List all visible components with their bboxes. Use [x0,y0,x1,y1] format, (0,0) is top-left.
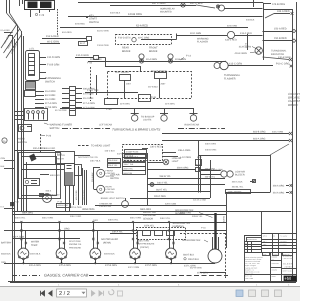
svg-text:40-S GRN: 40-S GRN [165,103,175,106]
svg-text:A 1 2: A 1 2 [245,246,248,248]
svg-text:B-17: B-17 [80,42,86,45]
svg-text:329-E DBN: 329-E DBN [165,202,176,205]
svg-text:P-23: P-23 [14,200,19,203]
svg-text:465-2 ORG: 465-2 ORG [42,217,53,220]
svg-text:(REAR): (REAR) [103,241,111,244]
svg-text:A 1 2: A 1 2 [245,243,248,245]
svg-text:336-C BLK: 336-C BLK [232,180,243,183]
svg-text:AP 10: AP 10 [263,235,267,238]
svg-text:457-R GRN: 457-R GRN [190,266,202,269]
svg-text:SCHT GRN: SCHT GRN [69,240,81,243]
svg-text:2 3 8 9 0 1: 2 3 8 9 0 1 [285,265,294,268]
svg-text:BRAKE: BRAKE [288,103,299,107]
svg-text:63-A RED: 63-A RED [136,25,148,28]
svg-text:123-B ORG: 123-B ORG [272,3,285,6]
svg-text:340 BL YEL: 340 BL YEL [232,185,244,188]
svg-text:BATTERY: BATTERY [1,242,12,245]
svg-text:AIR PRESSURE: AIR PRESSURE [101,238,119,241]
svg-text:410-R GRN: 410-R GRN [278,56,291,59]
svg-text:380A ORG: 380A ORG [140,208,151,211]
svg-text:F-14: F-14 [186,55,192,58]
svg-text:TANKER AIR: TANKER AIR [99,202,112,205]
svg-text:P10-C ORG: P10-C ORG [276,63,290,66]
svg-text:MOUNTED: MOUNTED [160,10,172,13]
svg-text:BM 4: BM 4 [263,241,266,243]
svg-text:437-C BLK: 437-C BLK [190,2,203,5]
svg-text:437-N ORG: 437-N ORG [71,206,82,209]
svg-text:LOW AIR: LOW AIR [172,157,182,160]
svg-text:40-R GRN: 40-R GRN [120,103,130,106]
svg-text:57-A RED: 57-A RED [1,29,11,32]
svg-text:309-F BLK: 309-F BLK [188,258,199,261]
svg-text:410-D GRN: 410-D GRN [97,30,109,33]
svg-text:384-E BLK: 384-E BLK [183,254,195,257]
svg-text:Unless otherwise specified: Unless otherwise specified [245,256,263,259]
svg-text:1-800-553-0000: 1-800-553-0000 [283,258,293,260]
svg-text:GRN: GRN [1,261,6,264]
svg-text:230-2 RED: 230-2 RED [150,146,162,149]
svg-text:SWITCH: SWITCH [110,177,119,180]
svg-text:336-W YEL: 336-W YEL [205,176,216,179]
svg-text:2-4 Garber: 2-4 Garber [280,244,287,246]
svg-text:330 B ORG: 330 B ORG [205,149,217,152]
svg-text:L-10 ORG: L-10 ORG [180,156,191,159]
svg-text:LOW AIR: LOW AIR [106,188,116,191]
svg-text:A 1 2: A 1 2 [245,249,248,251]
svg-text:334 A ORG: 334 A ORG [273,191,285,194]
svg-text:CM 6: CM 6 [263,244,267,246]
svg-text:40-D GRN: 40-D GRN [190,32,201,35]
svg-text:380A ORG: 380A ORG [82,208,95,211]
svg-text:413-C GRN: 413-C GRN [229,63,242,66]
svg-text:433-2 RED: 433-2 RED [225,38,237,41]
svg-text:F-8 B GRN: F-8 B GRN [47,64,60,67]
svg-text:63-A RED: 63-A RED [62,31,72,34]
svg-text:330 A ORG: 330 A ORG [205,143,216,146]
svg-text:413-2 RED: 413-2 RED [240,32,252,35]
svg-text:7-1 Garber: 7-1 Garber [280,235,288,238]
svg-text:F-25: F-25 [39,14,45,17]
svg-text:413-F GRN: 413-F GRN [235,52,247,55]
svg-text:P-16: P-16 [201,227,206,230]
svg-text:336-6 YEL: 336-6 YEL [15,217,26,220]
svg-text:413-E GRN: 413-E GRN [239,45,252,48]
svg-text:236-A ORG: 236-A ORG [178,149,190,152]
svg-text:329-B YEL: 329-B YEL [192,215,203,218]
svg-text:LOW AIR: LOW AIR [110,174,120,177]
svg-text:SENSOR: SENSOR [143,218,153,221]
svg-text:304-B BLK: 304-B BLK [104,253,115,256]
svg-text:40-A GRN: 40-A GRN [45,90,56,93]
svg-text:F-22: F-22 [57,153,62,156]
svg-text:2057: 2057 [161,83,167,86]
svg-text:BRAKE LIGHT SWITCH: BRAKE LIGHT SWITCH [101,197,125,200]
svg-text:84-3 GRN: 84-3 GRN [45,94,56,97]
svg-text:340-2 YEL: 340-2 YEL [157,181,169,184]
svg-text:WATER: WATER [31,241,39,244]
svg-text:SWITCH: SWITCH [50,127,60,130]
svg-text:TEMP: TEMP [31,244,38,247]
svg-text:SWITCH: SWITCH [18,141,28,144]
svg-text:GRN: GRN [1,157,6,160]
svg-text:P-46: P-46 [151,96,157,99]
svg-text:40-A GRN: 40-A GRN [146,58,157,61]
svg-text:603-B ORG: 603-B ORG [253,130,266,133]
svg-text:TANK, ENGINE: TANK, ENGINE [228,191,243,194]
svg-text:410-D GRN: 410-D GRN [47,56,60,59]
svg-text:336 BLK: 336 BLK [124,159,132,162]
svg-text:150-A RED: 150-A RED [274,27,287,30]
svg-text:ISSUED: ISSUED [272,268,279,271]
svg-text:ORG: ORG [64,228,70,231]
svg-text:P-38: P-38 [197,156,202,159]
svg-text:63-B RED: 63-B RED [75,23,85,26]
svg-text:S.E.K.L swit: S.E.K.L swit [193,198,206,201]
svg-text:152 A RED: 152 A RED [46,35,59,38]
svg-text:433-B ORG: 433-B ORG [58,204,69,207]
svg-text:CHECKED: CHECKED [272,262,280,265]
svg-text:336-6 YEL: 336-6 YEL [108,219,119,222]
svg-text:3818 BLK: 3818 BLK [1,253,11,256]
svg-text:TURNSIGNALS & BRAKE LIGHTS: TURNSIGNALS & BRAKE LIGHTS [112,128,161,132]
svg-text:F10-D GTN: F10-D GTN [118,37,131,40]
svg-text:SPEEDOMETER: SPEEDOMETER [173,222,191,225]
svg-text:426-2 BLK: 426-2 BLK [105,150,116,153]
svg-text:SPEEDOMETER: SPEEDOMETER [182,239,201,242]
svg-text:329-E DBN: 329-E DBN [154,195,166,198]
svg-text:BRAKE: BRAKE [149,50,158,53]
svg-text:430-F RED: 430-F RED [75,190,78,200]
svg-text:362-E YEL: 362-E YEL [156,188,168,191]
svg-text:P-35: P-35 [58,200,63,203]
svg-text:204-A GRN: 204-A GRN [12,235,24,238]
svg-text:To reorder call: To reorder call [283,256,293,258]
svg-text:437-B BLK: 437-B BLK [148,86,159,89]
svg-text:336-C TLN: 336-C TLN [124,163,134,166]
svg-text:40-E GRN: 40-E GRN [47,41,59,44]
svg-text:330-2 ORG: 330-2 ORG [138,240,149,243]
svg-text:LIGHT: LIGHT [172,160,179,163]
svg-text:433-A RED: 433-A RED [277,10,290,13]
svg-text:433 BLK: 433 BLK [246,19,255,22]
svg-text:206-0 YEL: 206-0 YEL [108,164,118,167]
svg-text:AIR PRESSURE: AIR PRESSURE [138,243,155,246]
svg-text:SWITCH: SWITCH [45,80,55,83]
svg-text:606-0 NO: 606-0 NO [50,193,60,196]
svg-text:437-A GRN: 437-A GRN [59,264,71,267]
svg-text:+M: +M [284,276,291,281]
svg-text:FLASHER: FLASHER [197,41,208,44]
svg-text:F10-D GRN: F10-D GRN [76,54,89,57]
svg-text:336-6 ORG: 336-6 ORG [177,166,189,169]
svg-text:K-2: K-2 [1,205,5,208]
svg-text:40-G GRN: 40-G GRN [90,58,102,61]
svg-text:84-B TAN: 84-B TAN [124,172,133,175]
svg-text:ENGINE OIL: ENGINE OIL [69,243,82,246]
svg-text:437 C GRN: 437 C GRN [152,2,166,5]
svg-text:600-D NO: 600-D NO [50,174,60,177]
svg-text:1-6 Garber: 1-6 Garber [280,241,287,243]
svg-text:E L E C T: E L E C T [284,262,294,265]
svg-text:40-4 GRN: 40-4 GRN [83,97,94,100]
svg-text:IDENT NO: IDENT NO [283,254,291,256]
svg-text:2 / 2: 2 / 2 [59,291,70,297]
svg-text:340-2 YEL: 340-2 YEL [160,217,171,220]
svg-text:40-4 GRN: 40-4 GRN [45,98,56,101]
svg-text:40-B GRB: 40-B GRB [227,25,238,28]
svg-text:336-A BLK: 336-A BLK [91,172,94,182]
svg-text:206-3 BLK: 206-3 BLK [108,159,118,162]
svg-text:TO HEAD LIGHT: TO HEAD LIGHT [91,145,111,148]
svg-text:FRONT: FRONT [106,169,114,172]
svg-text:600-A: 600-A [46,189,52,192]
svg-text:204-6 BLK: 204-6 BLK [30,253,41,256]
svg-text:LEFT FRONT: LEFT FRONT [115,71,130,74]
svg-text:LEFT REAR: LEFT REAR [99,124,112,127]
svg-text:(FRONT): (FRONT) [140,246,149,249]
svg-text:417-A GRN: 417-A GRN [45,102,57,105]
svg-text:LIGHTS: LIGHTS [143,119,152,122]
svg-text:2057: 2057 [126,83,132,86]
svg-text:ORG: ORG [93,219,98,222]
svg-text:123-B ORG: 123-B ORG [128,13,142,16]
svg-text:4974 GRN: 4974 GRN [197,272,208,275]
svg-text:FLASHER: FLASHER [224,77,236,80]
svg-text:F10-B GRN: F10-B GRN [97,44,109,47]
svg-text:437-2 GRN: 437-2 GRN [128,266,139,269]
svg-text:336-W YEL: 336-W YEL [159,175,171,178]
svg-text:SHEET 2 OF 2: SHEET 2 OF 2 [283,269,293,272]
svg-text:437-P GRN: 437-P GRN [145,264,157,267]
svg-text:SIZE: SIZE [263,254,266,256]
svg-text:433 A BLK: 433 A BLK [110,12,121,15]
svg-text:603-A ORG: 603-A ORG [253,137,265,140]
svg-text:SWITCH: SWITCH [106,191,115,194]
svg-text:150-B RED: 150-B RED [274,37,287,40]
svg-text:BRAKE: BRAKE [122,50,131,53]
svg-text:330-2 ORG: 330-2 ORG [70,215,81,218]
svg-text:417-A GRN: 417-A GRN [83,102,95,105]
svg-text:REAR: REAR [106,185,112,188]
svg-text:417-B GRN: 417-B GRN [55,109,67,112]
svg-text:NO REVISION: NO REVISION [247,238,257,241]
svg-text:GAUGES, CARRIER CAB: GAUGES, CARRIER CAB [44,274,89,278]
svg-text:433-2 GRN: 433-2 GRN [272,131,283,134]
svg-text:336-6 ORG: 336-6 ORG [180,211,191,214]
svg-text:22: 22 [273,235,275,238]
svg-text:PRESSURE: PRESSURE [69,246,82,249]
svg-text:HORN RELAY: HORN RELAY [160,8,175,11]
svg-text:SWITCH: SWITCH [89,21,99,24]
svg-text:RIGHT REAR: RIGHT REAR [185,124,200,127]
svg-text:420-A GRN: 420-A GRN [29,264,41,267]
svg-text:329-B: 329-B [223,216,226,222]
svg-text:600-8 ORG: 600-8 ORG [44,147,55,150]
svg-text:336 A ORG: 336 A ORG [273,184,285,187]
svg-text:437-B GRN: 437-B GRN [105,264,117,267]
svg-text:P-26: P-26 [46,135,52,138]
svg-text:APPR: APPR [272,275,277,278]
svg-text:TO BACKUP: TO BACKUP [141,116,155,119]
svg-text:465-2 ORG: 465-2 ORG [130,217,141,220]
svg-text:336-6 ORG: 336-6 ORG [205,168,216,171]
svg-text:AIR THROTTLE 22L: AIR THROTTLE 22L [78,156,99,159]
svg-text:BLK: BLK [1,165,5,168]
svg-text:BUZZER: BUZZER [235,174,245,177]
svg-text:237A YEL: 237A YEL [144,224,155,227]
svg-text:236-7 BLK: 236-7 BLK [90,159,101,162]
